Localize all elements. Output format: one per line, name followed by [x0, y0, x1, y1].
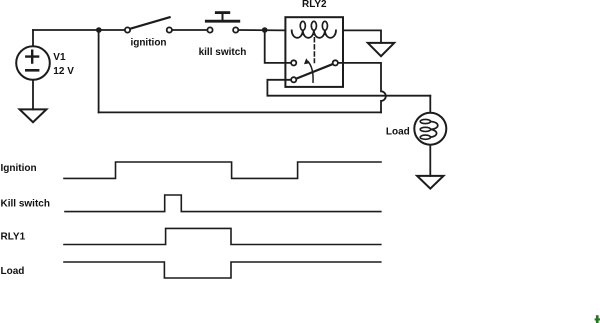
waveform RLY1 [64, 228, 381, 244]
V1 plus symbol [26, 51, 38, 63]
wire relay common contact to bottom rail with hop [338, 63, 386, 113]
wire load top lead [429, 96, 431, 122]
relay coil loop 2 [311, 21, 316, 30]
junction dot B [262, 27, 268, 33]
junction dot A [96, 27, 102, 33]
green watermark t [595, 315, 600, 323]
waveform Kill switch [65, 195, 381, 212]
kill switch cap [216, 11, 229, 14]
kill switch terminal 1 [207, 27, 212, 32]
wire V1 top lead [32, 30, 34, 46]
kill switch stem [222, 14, 224, 21]
relay actuation arrow [308, 62, 313, 83]
wire vertical from junction A down [98, 30, 100, 112]
svg-text:RLY1: RLY1 [1, 232, 26, 243]
waveform Ignition [64, 162, 381, 178]
ground below load [417, 176, 443, 189]
V1 minus symbol [26, 69, 38, 72]
ignition switch terminal 1 [125, 27, 130, 32]
svg-text:V1: V1 [53, 52, 66, 63]
kill switch terminal 2 [233, 27, 238, 32]
svg-text:Load: Load [386, 126, 410, 137]
ground at relay coil [368, 43, 394, 56]
wire ignition to kill switch [172, 29, 207, 31]
voltage source V1 circle [16, 46, 50, 80]
svg-text:Load: Load [1, 266, 25, 277]
relay coil loop 1 [300, 21, 305, 30]
svg-text:Ignition: Ignition [1, 163, 37, 174]
wire bottom rail [99, 111, 381, 113]
svg-text:Kill switch: Kill switch [1, 199, 50, 210]
ignition switch blade [130, 17, 170, 29]
svg-text:ignition: ignition [130, 37, 166, 48]
wire coil out to ground [343, 30, 381, 43]
ground below V1 [20, 109, 47, 122]
waveform Load [64, 262, 381, 278]
wire relay NO contact to load [267, 80, 430, 96]
wire top rail V1 to ignition [33, 29, 125, 31]
wire kill switch to relay coil [238, 29, 285, 31]
svg-text:RLY2: RLY2 [302, 0, 327, 10]
kill switch plunger plate [206, 20, 239, 23]
relay coil loop 3 [322, 21, 327, 30]
wire junction B to relay NC contact [265, 30, 291, 63]
relay NC contact [291, 60, 296, 65]
relay RLY2 box [285, 17, 343, 87]
load lamp filament [430, 122, 437, 138]
wire load bottom lead [429, 137, 431, 176]
svg-text:kill switch: kill switch [199, 47, 247, 58]
svg-text:12 V: 12 V [53, 66, 74, 77]
wire V1 bottom lead [32, 80, 34, 110]
load lamp circle [414, 113, 446, 145]
relay common contact [333, 60, 338, 65]
relay switch blade [296, 64, 332, 79]
relay NO contact [291, 77, 296, 82]
ignition switch terminal 2 [167, 27, 172, 32]
relay coil humps [292, 30, 336, 37]
relay mechanical link (dashed) [313, 38, 315, 63]
